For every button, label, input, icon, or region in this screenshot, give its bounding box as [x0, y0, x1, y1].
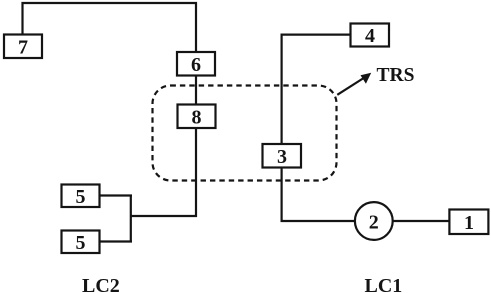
svg-text:8: 8	[192, 107, 202, 129]
wire LC2 manifold vertical	[130, 195, 132, 243]
box 8	[178, 105, 216, 129]
arrow to TRS label	[337, 73, 371, 95]
svg-text:2: 2	[369, 212, 379, 234]
svg-text:7: 7	[18, 37, 28, 59]
box 3	[263, 144, 302, 168]
svg-text:3: 3	[277, 146, 287, 168]
box 1	[449, 210, 488, 235]
svg-text:4: 4	[365, 25, 375, 47]
wire top box 5 to manifold	[100, 194, 132, 196]
box 7	[4, 35, 42, 59]
label LC2	[82, 275, 120, 293]
wire junction to LC2 manifold	[131, 215, 197, 217]
circle 2 (pump)	[355, 202, 393, 240]
svg-text:5: 5	[76, 186, 86, 208]
svg-text:1: 1	[464, 212, 474, 234]
svg-text:LC2: LC2	[82, 275, 120, 293]
label LC1	[365, 275, 403, 293]
wire bottom box 5 to manifold	[100, 240, 132, 242]
wire pump 2 to box 1	[393, 220, 450, 222]
dashed enclosure TRS	[153, 86, 337, 181]
svg-text:TRS: TRS	[377, 65, 415, 86]
box 5 lower	[62, 231, 100, 255]
wire box 6 to box 8	[195, 76, 197, 104]
wire from box 7 up and across top to box 6	[23, 3, 197, 52]
label TRS	[377, 65, 415, 86]
box 4	[351, 24, 390, 48]
svg-text:LC1: LC1	[365, 275, 403, 293]
box 6	[177, 52, 215, 76]
wire box 3 down and right to pump 2	[282, 168, 355, 222]
svg-text:6: 6	[191, 54, 201, 76]
wire box 8 down to junction	[195, 128, 197, 217]
wire box 4 across and down through box 3 region	[282, 35, 351, 144]
box 5 upper	[62, 185, 100, 209]
svg-text:5: 5	[76, 232, 86, 254]
